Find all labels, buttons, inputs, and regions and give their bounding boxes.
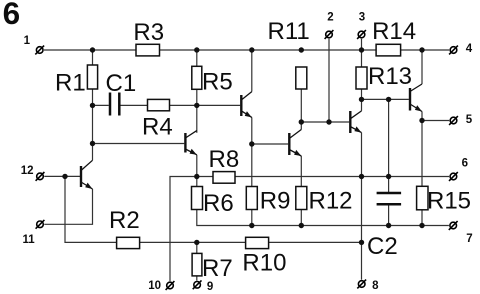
node R11-Q4 (299, 119, 304, 124)
svg-text:R15: R15 (427, 188, 471, 215)
pin 5 terminal (449, 116, 458, 125)
svg-text:6: 6 (3, 0, 21, 31)
wire pin2 column (328, 39, 330, 122)
svg-text:11: 11 (23, 234, 36, 246)
svg-text:C2: C2 (367, 233, 398, 260)
wire pin10 corner to R8 (170, 177, 213, 282)
figure number 6 (3, 0, 21, 31)
svg-text:C1: C1 (106, 70, 137, 97)
pin label 12 (21, 165, 34, 177)
resistor R14 (376, 44, 401, 56)
resistor R9 (246, 187, 257, 210)
label R8 (209, 146, 240, 173)
wire R5 top lead (196, 50, 198, 66)
wire Q3 emitter drop (251, 117, 253, 144)
svg-text:R4: R4 (142, 113, 173, 140)
wire bottom rail y225 (252, 225, 449, 227)
transistor Q6 (410, 84, 422, 112)
node rail-R11 (299, 47, 304, 52)
pin 6 terminal (449, 172, 458, 181)
pin 2 terminal (325, 30, 334, 39)
transistor Q3 (241, 92, 252, 118)
svg-text:R8: R8 (209, 146, 240, 173)
pin label 7 (466, 233, 472, 245)
svg-text:7: 7 (466, 233, 472, 245)
wire pin5 node to R15 (421, 121, 423, 187)
label R12 (309, 187, 353, 214)
node R13-Q5 (359, 97, 364, 102)
node R4-R5 (194, 103, 199, 108)
node R15 bottom (419, 223, 424, 228)
label R9 (260, 187, 291, 214)
wire R10 to pin8 column (269, 241, 362, 243)
resistor R5 (192, 66, 202, 89)
wire pin11 to Q1 emitter (44, 189, 92, 224)
wire pin12 to Q1 base (44, 175, 80, 177)
svg-text:1: 1 (24, 35, 31, 47)
pin 8 terminal (357, 280, 366, 289)
pin 3 terminal (357, 30, 366, 39)
wire pin3 to R13 (361, 39, 363, 67)
pin label 6 (462, 157, 468, 169)
label C1 (106, 70, 137, 97)
label R3 (133, 19, 164, 46)
wire R9 bottom lead (251, 210, 253, 226)
resistor R13 (356, 67, 367, 89)
wire Q5 collector riser (361, 99, 363, 111)
node Q5 emitter rail (359, 174, 364, 179)
pin label 11 (23, 234, 36, 246)
wire R13 bottom lead (361, 89, 363, 99)
label R5 (202, 68, 233, 95)
svg-text:R7: R7 (202, 255, 233, 282)
resistor R10 (246, 237, 269, 248)
wire Q4 base (252, 143, 288, 145)
label R2 (109, 207, 140, 234)
wire R4 to Q3 base (170, 104, 241, 106)
node C2-rail177 (386, 174, 391, 179)
svg-text:8: 8 (372, 280, 379, 292)
wire pin8 column (361, 177, 363, 280)
svg-text:R14: R14 (372, 18, 416, 45)
wire R11 bottom lead (300, 89, 302, 122)
pin 4 terminal (449, 46, 458, 55)
pin 10 terminal (166, 281, 175, 290)
transistor Q1 (81, 160, 93, 189)
wire Q4 emitter drop to R12 (300, 156, 302, 187)
svg-text:R12: R12 (309, 187, 353, 214)
wire node A to C1 (93, 104, 109, 106)
label R11 (268, 18, 310, 45)
svg-text:5: 5 (466, 114, 473, 126)
node R1-C1 (90, 103, 95, 108)
node pin12 tap (62, 174, 67, 179)
node rail-R1 (90, 47, 95, 52)
pin label 3 (359, 11, 365, 23)
label R14 (372, 18, 416, 45)
resistor R7 (192, 253, 202, 276)
wire R15 bottom lead (421, 210, 423, 226)
wire R1 bottom / node A column (92, 89, 94, 160)
svg-text:R2: R2 (109, 207, 140, 234)
wire top rail mid (R3 to R14) (160, 49, 377, 51)
wire Q5 emitter drop (361, 133, 363, 177)
svg-text:R5: R5 (202, 68, 233, 95)
wire Q2 collector riser (196, 105, 198, 132)
svg-text:10: 10 (148, 280, 161, 292)
wire pin12 junction drop (65, 177, 117, 243)
svg-text:9: 9 (207, 281, 213, 293)
wire R7 top lead (196, 242, 198, 253)
wire R5 bottom lead (196, 89, 198, 105)
svg-text:R6: R6 (203, 190, 234, 217)
resistor R2 (117, 237, 140, 248)
label R10 (242, 250, 286, 277)
node Q3 emitter (249, 141, 254, 146)
node R10-pin8 (359, 240, 364, 245)
node C2 bottom (386, 223, 391, 228)
label R1 (55, 69, 86, 96)
wire R8 to pin6 (235, 176, 449, 178)
pin label 10 (148, 280, 161, 292)
svg-text:12: 12 (21, 165, 34, 177)
resistor R3 (136, 44, 160, 56)
resistor R8 (213, 172, 235, 184)
pin label 8 (372, 280, 379, 292)
label R15 (427, 188, 471, 215)
pin 12 terminal (36, 172, 45, 181)
node R12 bottom (299, 223, 304, 228)
wire R6 top lead (196, 177, 198, 187)
wire C2 top column (388, 99, 390, 192)
node rail-Q3 (249, 47, 254, 52)
label C2 (367, 233, 398, 260)
wire Q3 collector riser (251, 50, 253, 92)
node pin2-Q5base (326, 119, 331, 124)
wire Q6 base (362, 98, 409, 100)
svg-text:3: 3 (359, 11, 365, 23)
transistor Q2 (185, 131, 196, 155)
node C2 top tap (386, 97, 391, 102)
wire R7 bottom lead to pin9 (196, 276, 198, 281)
transistor Q5 (350, 111, 361, 133)
wire Q6 emitter drop (421, 112, 423, 121)
node R9 bottom (249, 223, 254, 228)
pin label 4 (466, 43, 473, 55)
svg-text:R13: R13 (368, 63, 412, 90)
label R7 (202, 255, 233, 282)
resistor R1 (87, 65, 97, 89)
pin label 2 (327, 11, 333, 23)
pin label 5 (466, 114, 473, 126)
wire Q2 emitter drop (196, 155, 198, 177)
node rail-pin3 (359, 47, 364, 52)
node R7 top (194, 240, 199, 245)
pin 1 terminal (35, 46, 44, 55)
svg-text:6: 6 (462, 157, 468, 169)
pin label 1 (24, 35, 31, 47)
wire R9 column (251, 144, 253, 187)
wire R1 top lead (92, 50, 94, 65)
label R6 (203, 190, 234, 217)
svg-text:R3: R3 (133, 19, 164, 46)
wire Q5 base (301, 121, 349, 123)
svg-text:R11: R11 (268, 18, 310, 45)
wire pin5 stub (422, 120, 449, 122)
resistor R12 (296, 187, 307, 210)
svg-text:R9: R9 (260, 187, 291, 214)
capacitor C1 (110, 93, 119, 116)
resistor R15 (417, 186, 428, 210)
wire top rail left (pin1 to R3) (44, 49, 136, 51)
transistor Q4 (289, 130, 301, 157)
pin 11 terminal (36, 220, 45, 229)
resistor R11 (296, 67, 307, 89)
wire Q4 collector riser (300, 122, 302, 130)
label R4 (142, 113, 173, 140)
svg-text:4: 4 (466, 43, 473, 55)
pin label 9 (207, 281, 213, 293)
resistor R6 (192, 187, 203, 210)
pin 9 terminal (193, 280, 202, 289)
wire R12 bottom lead (300, 210, 302, 226)
wire R6 bottom corner (197, 210, 252, 226)
wire top rail right (R14 to pin4) (401, 49, 449, 51)
svg-text:R1: R1 (55, 69, 86, 96)
pin 7 terminal (449, 221, 458, 230)
node R8 left (194, 174, 199, 179)
label R13 (368, 63, 412, 90)
wire R2 to R10 (140, 241, 246, 243)
svg-text:R10: R10 (242, 250, 286, 277)
node rail-Q6 (419, 47, 424, 52)
resistor R4 (148, 99, 170, 110)
node Q2 base tap (90, 141, 95, 146)
node rail-R5 (194, 47, 199, 52)
wire C2 bottom lead (388, 205, 390, 225)
node pin5 tap (419, 118, 424, 123)
wire C1 to R4 (120, 104, 147, 106)
wire Q6 collector riser (421, 50, 423, 84)
svg-text:2: 2 (327, 11, 333, 23)
wire Q2 base (93, 143, 185, 145)
capacitor C2 (377, 193, 402, 204)
